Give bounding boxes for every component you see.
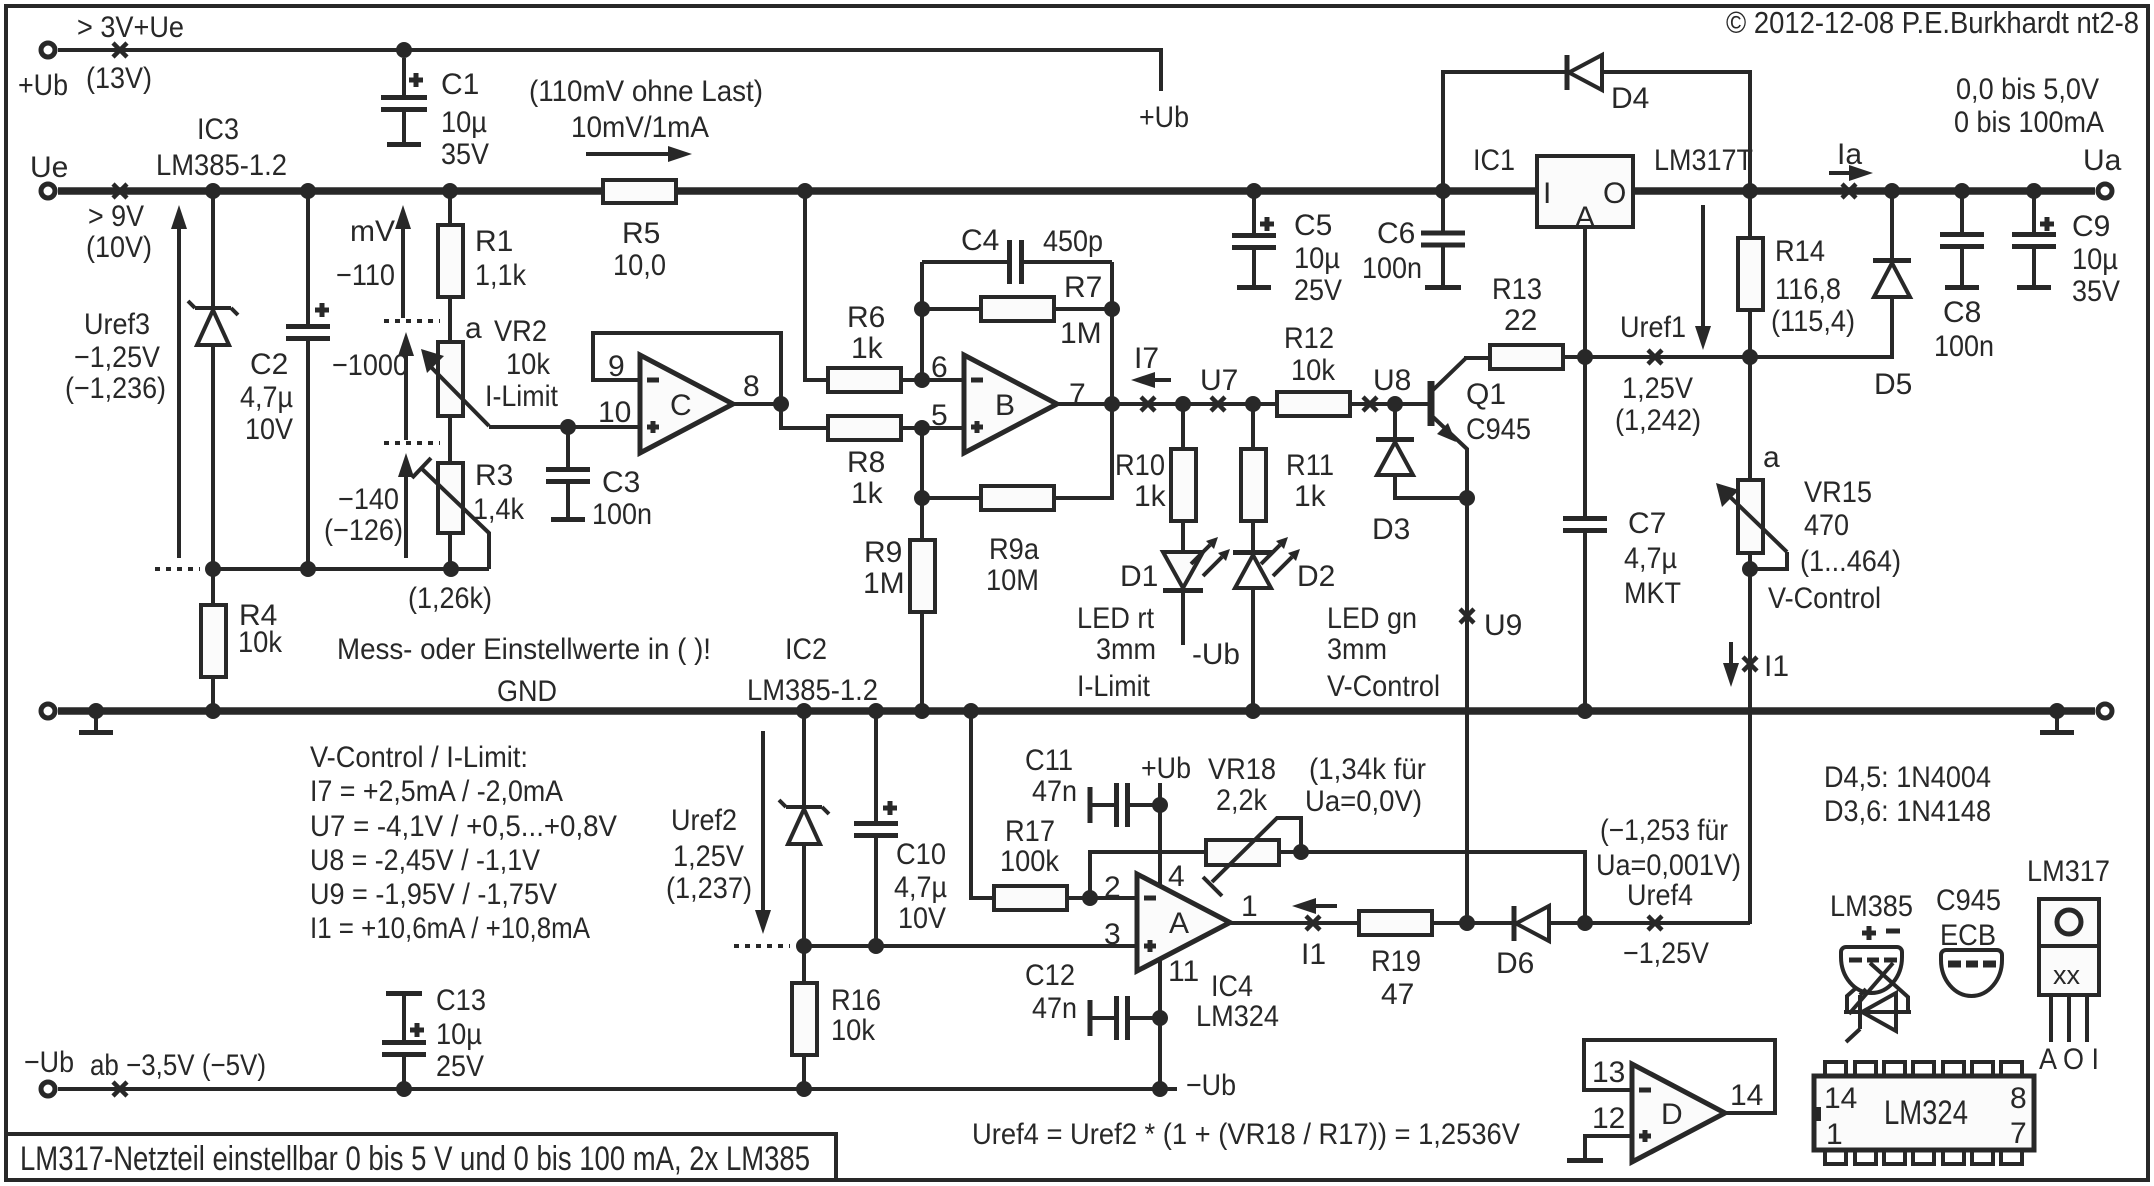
- svg-text:I1: I1: [1764, 650, 1789, 683]
- svg-text:+Ub: +Ub: [1139, 101, 1189, 134]
- svg-text:(1...464): (1...464): [1800, 545, 1901, 578]
- arrow current direction R5: [586, 146, 692, 162]
- LED D1: [1163, 537, 1230, 645]
- svg-text:LM317-Netzteil einstellbar 0 b: LM317-Netzteil einstellbar 0 bis 5 V und…: [20, 1140, 810, 1178]
- node x marker I7: [1141, 397, 1155, 411]
- svg-text:R11: R11: [1286, 449, 1334, 482]
- svg-text:Uref1: Uref1: [1620, 311, 1686, 344]
- svg-text:(10V): (10V): [86, 231, 152, 264]
- svg-text:R3: R3: [475, 459, 513, 492]
- resistor R11: [1241, 404, 1266, 552]
- svg-text:1k: 1k: [851, 332, 884, 365]
- svg-text:D3,6: 1N4148: D3,6: 1N4148: [1824, 795, 1991, 828]
- svg-text:A O I: A O I: [2039, 1043, 2099, 1076]
- junction op-amp C output: [773, 396, 789, 412]
- svg-text:47n: 47n: [1032, 775, 1077, 808]
- svg-text:D6: D6: [1496, 947, 1534, 980]
- op-amp A: [1137, 874, 1230, 971]
- svg-text:U7 = -4,1V / +0,5...+0,8V: U7 = -4,1V / +0,5...+0,8V: [310, 810, 617, 843]
- wire +Ub top rail: [58, 50, 1161, 91]
- svg-text:1k: 1k: [1294, 480, 1327, 513]
- svg-text:R5: R5: [622, 217, 660, 250]
- resistor R4: [201, 569, 226, 711]
- svg-text:4: 4: [1168, 860, 1185, 893]
- svg-text:IC1: IC1: [1473, 144, 1515, 177]
- junction D6 right / feedback: [1577, 915, 1593, 931]
- capacitor C9: [2012, 191, 2056, 288]
- svg-text:C945: C945: [1466, 413, 1531, 446]
- resistor R17: [994, 886, 1067, 910]
- diode D5: [1873, 191, 1911, 297]
- capacitor C8: [1940, 191, 1984, 288]
- svg-text:11: 11: [1168, 955, 1199, 988]
- wire bus to R6: [805, 191, 828, 380]
- svg-text:Uref3: Uref3: [84, 308, 150, 341]
- svg-text:4,7µ: 4,7µ: [894, 871, 947, 904]
- svg-text:V-Control: V-Control: [1327, 670, 1440, 703]
- arrow -140 scale: [398, 453, 414, 558]
- svg-text:22: 22: [1504, 304, 1537, 337]
- wire pin11 to -Ub: [1158, 959, 1162, 1089]
- svg-text:14: 14: [1730, 1079, 1763, 1112]
- icon C945 package: [1936, 884, 2002, 996]
- svg-text:10k: 10k: [1291, 354, 1336, 387]
- node x marker Ia: [1842, 184, 1856, 198]
- resistor R9: [910, 540, 935, 711]
- svg-text:4,7µ: 4,7µ: [240, 381, 293, 414]
- svg-text:10M: 10M: [986, 564, 1039, 597]
- capacitor C10: [854, 711, 898, 946]
- capacitor C12: [1090, 996, 1160, 1040]
- op-amp D: [1632, 1064, 1725, 1162]
- svg-text:Uref4: Uref4: [1627, 879, 1693, 912]
- svg-text:-Ub: -Ub: [1192, 638, 1240, 671]
- svg-text:V-Control / I-Limit:: V-Control / I-Limit:: [310, 741, 528, 774]
- svg-text:+Ub: +Ub: [1141, 752, 1191, 785]
- bus junction dots: [205, 183, 221, 199]
- capacitor C13: [382, 994, 426, 1090]
- svg-text:I7 = +2,5mA / -2,0mA: I7 = +2,5mA / -2,0mA: [310, 775, 563, 808]
- svg-text:14: 14: [1824, 1082, 1857, 1115]
- svg-text:1k: 1k: [851, 477, 884, 510]
- zener diode IC3: [188, 191, 238, 569]
- node x marker U9: [1460, 609, 1474, 623]
- svg-text:C9: C9: [2072, 210, 2110, 243]
- svg-text:−110: −110: [336, 259, 395, 292]
- svg-text:LM385: LM385: [1830, 890, 1913, 923]
- capacitor C5: [1232, 191, 1276, 288]
- svg-text:1M: 1M: [1060, 317, 1102, 350]
- svg-text:0,0 bis 5,0V: 0,0 bis 5,0V: [1956, 73, 2099, 106]
- svg-text:−1000: −1000: [332, 349, 408, 382]
- svg-text:10,0: 10,0: [613, 249, 666, 282]
- svg-text:(1,242): (1,242): [1615, 404, 1701, 437]
- svg-text:3mm: 3mm: [1096, 633, 1156, 666]
- transistor Q1: [1395, 358, 1467, 498]
- svg-text:A: A: [1169, 907, 1189, 940]
- svg-text:3mm: 3mm: [1327, 633, 1387, 666]
- resistor R7: [922, 297, 1112, 321]
- node x marker U7: [1211, 397, 1225, 411]
- wire op-amp C feedback loop: [593, 333, 828, 428]
- svg-text:IC4: IC4: [1211, 970, 1253, 1003]
- resistor R6: [828, 368, 901, 392]
- junction VR15 bottom: [1742, 561, 1758, 577]
- terminal Ua: [2098, 184, 2112, 198]
- label V-Control / I-Limit block: [310, 741, 617, 945]
- diode D4: [1443, 55, 1750, 191]
- svg-text:7: 7: [1069, 378, 1086, 411]
- svg-text:13: 13: [1592, 1056, 1625, 1089]
- svg-text:−Ub: −Ub: [1186, 1069, 1236, 1102]
- terminal GND right: [2098, 704, 2112, 718]
- trimmer VR18: [1203, 818, 1301, 896]
- svg-text:10µ: 10µ: [1294, 242, 1340, 275]
- svg-text:R14: R14: [1775, 235, 1825, 268]
- wire Uref1 row: [1585, 297, 1892, 357]
- svg-text:10k: 10k: [238, 626, 283, 659]
- wire R19 to D6: [1432, 921, 1514, 925]
- terminal GND left: [41, 704, 55, 718]
- svg-text:116,8: 116,8: [1775, 273, 1841, 306]
- arrow mV scale: [395, 205, 411, 318]
- resistor R13: [1464, 345, 1585, 369]
- svg-text:R8: R8: [847, 446, 885, 479]
- LED D2: [1233, 537, 1300, 711]
- diode D3: [1376, 404, 1467, 498]
- svg-text:C1: C1: [441, 68, 479, 101]
- wire main bus: [58, 187, 2095, 195]
- arrow Uref2: [755, 731, 771, 934]
- svg-text:LM385-1.2: LM385-1.2: [747, 674, 878, 707]
- svg-text:6: 6: [931, 351, 948, 384]
- svg-text:100k: 100k: [1000, 845, 1060, 878]
- svg-text:10µ: 10µ: [436, 1018, 482, 1051]
- svg-text:I-Limit: I-Limit: [485, 380, 559, 413]
- svg-text:I7: I7: [1134, 342, 1159, 375]
- diode D6: [1514, 906, 1750, 941]
- zener diode IC2: [779, 711, 829, 946]
- svg-text:1,1k: 1,1k: [475, 259, 527, 292]
- svg-text:470: 470: [1804, 509, 1849, 542]
- svg-text:(110mV ohne Last): (110mV ohne Last): [529, 75, 763, 108]
- svg-text:R16: R16: [831, 984, 881, 1017]
- svg-text:(−1,236): (−1,236): [65, 372, 166, 405]
- svg-text:Ua: Ua: [2083, 144, 2122, 177]
- wire C4 right drop: [1110, 262, 1114, 404]
- ground symbol right: [2055, 715, 2059, 730]
- svg-text:100n: 100n: [592, 498, 652, 531]
- wire VR18 row to feedback drop: [1279, 852, 1585, 924]
- svg-text:1: 1: [1241, 890, 1258, 923]
- svg-text:LM385-1.2: LM385-1.2: [156, 149, 287, 182]
- potentiometer VR2: [421, 342, 489, 463]
- svg-text:C11: C11: [1025, 744, 1073, 777]
- svg-text:V-Control: V-Control: [1768, 582, 1881, 615]
- arrow Uref3: [171, 205, 187, 558]
- svg-text:LM324: LM324: [1196, 1000, 1279, 1033]
- svg-text:R12: R12: [1284, 322, 1334, 355]
- node x marker I1 top: [1743, 657, 1757, 671]
- icon LM324 DIP package: [1812, 1062, 2034, 1164]
- wire pin2 to VR18: [1090, 852, 1206, 898]
- svg-text:(1,26k): (1,26k): [408, 582, 492, 615]
- wire -Ub rail: [58, 1087, 1177, 1091]
- potentiometer VR15: [1716, 357, 1787, 569]
- svg-text:D4,5: 1N4004: D4,5: 1N4004: [1824, 761, 1991, 794]
- svg-text:LED rt: LED rt: [1077, 602, 1155, 635]
- svg-text:VR2: VR2: [494, 315, 547, 348]
- wire pin12 ground stub: [1585, 1136, 1632, 1158]
- svg-text:10: 10: [598, 396, 631, 429]
- capacitor C7: [1563, 519, 1607, 712]
- svg-text:1,25V: 1,25V: [1622, 372, 1693, 405]
- svg-text:100n: 100n: [1934, 330, 1994, 363]
- svg-text:R10: R10: [1115, 449, 1165, 482]
- title box: [6, 1134, 836, 1180]
- svg-text:D: D: [1661, 1098, 1683, 1131]
- svg-text:ECB: ECB: [1940, 919, 1996, 952]
- svg-text:IC3: IC3: [197, 113, 239, 146]
- svg-text:R19: R19: [1371, 945, 1421, 978]
- svg-text:C3: C3: [602, 466, 640, 499]
- resistor R12: [1277, 392, 1350, 416]
- wire R17 to pin2: [1067, 896, 1137, 900]
- junction R10 top: [1175, 396, 1191, 412]
- svg-text:1: 1: [1826, 1118, 1843, 1151]
- svg-text:C13: C13: [436, 984, 486, 1017]
- svg-text:GND: GND: [497, 675, 557, 708]
- svg-text:© 2012-12-08 P.E.Burkhardt nt2: © 2012-12-08 P.E.Burkhardt nt2-8: [1726, 5, 2139, 40]
- svg-text:−140: −140: [338, 483, 399, 516]
- capacitor C11: [1090, 783, 1160, 827]
- svg-text:U9: U9: [1484, 609, 1522, 642]
- terminal -Ub: [41, 1082, 55, 1096]
- junction U8 node: [1387, 396, 1403, 412]
- svg-text:C2: C2: [250, 348, 288, 381]
- capacitor C3: [546, 427, 590, 520]
- node x marker Uref4: [1648, 916, 1662, 930]
- svg-text:−Ub: −Ub: [24, 1046, 74, 1079]
- svg-text:C945: C945: [1936, 884, 2001, 917]
- wire Q1 emitter down U9: [1465, 498, 1469, 924]
- wire pin5 to R9a: [920, 428, 924, 540]
- svg-text:C8: C8: [1943, 296, 1981, 329]
- junction C1 top: [396, 42, 412, 58]
- svg-text:10mV/1mA: 10mV/1mA: [571, 111, 709, 144]
- arrow Uref1: [1695, 205, 1711, 350]
- wire Uref2 row to pin3: [804, 944, 1137, 948]
- resistor R14: [1738, 191, 1763, 357]
- svg-text:100n: 100n: [1362, 252, 1422, 285]
- svg-text:10k: 10k: [831, 1014, 876, 1047]
- svg-text:3: 3: [1104, 918, 1121, 951]
- svg-text:R6: R6: [847, 301, 885, 334]
- wire GND bus: [58, 707, 2095, 715]
- svg-text:35V: 35V: [441, 138, 489, 171]
- wire R8 to pin5: [901, 426, 964, 430]
- wire op-amp B output: [1057, 402, 1277, 406]
- svg-text:D2: D2: [1297, 560, 1335, 593]
- svg-text:2,2k: 2,2k: [1216, 784, 1268, 817]
- svg-text:R9a: R9a: [989, 533, 1039, 566]
- svg-text:ab −3,5V (−5V): ab −3,5V (−5V): [90, 1049, 266, 1082]
- resistor R16: [792, 946, 817, 1089]
- svg-text:Q1: Q1: [1466, 378, 1506, 411]
- svg-text:(−1,253 für: (−1,253 für: [1600, 814, 1728, 847]
- svg-text:R7: R7: [1064, 271, 1102, 304]
- capacitor C2: [286, 191, 330, 569]
- arrow -1000 scale: [398, 332, 414, 440]
- svg-text:C4: C4: [961, 224, 999, 257]
- ground symbol left: [94, 715, 98, 730]
- svg-text:1,4k: 1,4k: [473, 493, 525, 526]
- svg-text:Ua=0,001V): Ua=0,001V): [1596, 849, 1741, 882]
- svg-text:I1 = +10,6mA / +10,8mA: I1 = +10,6mA / +10,8mA: [310, 912, 590, 945]
- op-amp B: [964, 355, 1057, 453]
- svg-text:−1,25V: −1,25V: [1623, 937, 1709, 970]
- resistor R10: [1171, 404, 1196, 552]
- capacitor C1: [381, 58, 427, 145]
- svg-text:U9 = -1,95V / -1,75V: U9 = -1,95V / -1,75V: [310, 878, 557, 911]
- resistor R8: [828, 416, 901, 440]
- svg-text:4,7µ: 4,7µ: [1624, 542, 1677, 575]
- icon LM317 package: [2027, 855, 2110, 1076]
- svg-text:8: 8: [2010, 1082, 2027, 1115]
- svg-text:Ue: Ue: [30, 151, 68, 184]
- svg-text:xx: xx: [2053, 960, 2081, 990]
- svg-text:I: I: [1543, 177, 1551, 210]
- svg-text:C6: C6: [1377, 217, 1415, 250]
- svg-text:LM317T: LM317T: [1654, 144, 1753, 177]
- svg-text:VR18: VR18: [1208, 753, 1276, 786]
- capacitor C6: [1421, 191, 1465, 288]
- node x marker U8: [1363, 397, 1377, 411]
- arrow I1 top: [1723, 642, 1739, 687]
- junction R11 top: [1245, 396, 1261, 412]
- svg-text:(13V): (13V): [86, 62, 152, 95]
- svg-text:10V: 10V: [245, 413, 293, 446]
- svg-text:a: a: [465, 312, 482, 345]
- svg-text:MKT: MKT: [1624, 577, 1681, 610]
- svg-text:LED gn: LED gn: [1327, 602, 1417, 635]
- resistor R19: [1359, 911, 1432, 935]
- svg-text:2: 2: [1104, 871, 1121, 904]
- svg-text:7: 7: [2010, 1117, 2027, 1150]
- svg-text:10k: 10k: [506, 348, 551, 381]
- regulator IC1: [1537, 156, 1633, 234]
- wire VR15 to I1 row: [1748, 569, 1752, 924]
- svg-text:(115,4): (115,4): [1771, 305, 1855, 338]
- svg-text:R17: R17: [1005, 815, 1055, 848]
- ground symbol pin12: [1567, 1158, 1603, 1163]
- svg-text:C: C: [670, 389, 692, 422]
- svg-text:R1: R1: [475, 225, 513, 258]
- wire VR2 wiper to node: [489, 425, 640, 429]
- svg-text:47n: 47n: [1032, 992, 1077, 1025]
- svg-text:10V: 10V: [898, 902, 946, 935]
- svg-text:35V: 35V: [2072, 275, 2120, 308]
- node x marker Uref1: [1648, 350, 1662, 364]
- svg-text:> 9V: > 9V: [88, 200, 144, 233]
- svg-text:−1,25V: −1,25V: [74, 341, 160, 374]
- dotted wiper mark upper: [384, 319, 440, 323]
- svg-text:450p: 450p: [1043, 225, 1103, 258]
- wire GND to R17: [971, 711, 994, 898]
- svg-text:8: 8: [743, 370, 760, 403]
- GND junction dots: [88, 703, 104, 719]
- svg-text:D4: D4: [1611, 82, 1649, 115]
- svg-text:> 3V+Ue: > 3V+Ue: [77, 11, 184, 44]
- svg-text:Mess- oder Einstellwerte in (: Mess- oder Einstellwerte in ( )!: [337, 633, 711, 666]
- svg-text:C10: C10: [896, 838, 946, 871]
- svg-text:D1: D1: [1120, 560, 1158, 593]
- arrow I7: [1131, 372, 1171, 388]
- svg-text:Uref2: Uref2: [671, 804, 737, 837]
- resistor R1: [438, 191, 463, 342]
- arrow I1 out: [1292, 898, 1337, 914]
- svg-text:(−126): (−126): [324, 514, 403, 547]
- op-amp C: [640, 355, 733, 453]
- svg-text:Ua=0,0V): Ua=0,0V): [1305, 785, 1422, 818]
- svg-text:U8: U8: [1373, 364, 1411, 397]
- capacitor C4: [922, 240, 1112, 284]
- svg-text:LM324: LM324: [1884, 1094, 1968, 1132]
- svg-text:10µ: 10µ: [2072, 243, 2118, 276]
- svg-text:a: a: [1763, 441, 1780, 474]
- wire op-amp D feedback box: [1584, 1040, 1775, 1113]
- svg-text:LM317: LM317: [2027, 855, 2110, 888]
- svg-text:R13: R13: [1492, 273, 1542, 306]
- svg-text:B: B: [995, 389, 1015, 422]
- svg-text:1,25V: 1,25V: [673, 840, 744, 873]
- wire +Ub pin4: [1158, 783, 1162, 886]
- resistor R9a: [922, 404, 1112, 510]
- svg-text:I-Limit: I-Limit: [1077, 670, 1151, 703]
- -Ub junction dots: [396, 1081, 412, 1097]
- svg-text:25V: 25V: [436, 1050, 484, 1083]
- junction R14 bottom: [1742, 349, 1758, 365]
- node x marker >9V: [113, 184, 127, 198]
- node x marker 13V: [113, 43, 127, 57]
- svg-text:1k: 1k: [1134, 480, 1167, 513]
- resistor R5: [603, 180, 676, 203]
- arrow Ia: [1829, 165, 1873, 181]
- svg-text:D5: D5: [1874, 368, 1912, 401]
- svg-text:C12: C12: [1025, 959, 1075, 992]
- wire R6 to pin6: [901, 378, 964, 382]
- svg-text:VR15: VR15: [1804, 476, 1872, 509]
- wire C4 left drop: [920, 262, 924, 380]
- junction Q1 emitter / D3: [1459, 490, 1475, 506]
- terminal Ue: [41, 184, 55, 198]
- svg-text:10µ: 10µ: [441, 106, 487, 139]
- svg-text:mV: mV: [350, 215, 395, 248]
- node x marker I1 out: [1306, 916, 1320, 930]
- wire R12 to U8: [1350, 402, 1429, 406]
- dotted wiper mark lower: [384, 441, 440, 445]
- svg-text:R9: R9: [864, 536, 902, 569]
- icon LM385 package: [1830, 890, 1913, 1042]
- svg-text:C5: C5: [1294, 209, 1332, 242]
- svg-text:1M: 1M: [863, 567, 905, 600]
- node x marker ab -3,5V: [113, 1082, 127, 1096]
- svg-text:47: 47: [1381, 978, 1414, 1011]
- svg-text:(1,237): (1,237): [666, 872, 752, 905]
- svg-text:Uref4 = Uref2 * (1 + (VR18 / R: Uref4 = Uref2 * (1 + (VR18 / R17)) = 1,2…: [972, 1118, 1520, 1151]
- wire op-amp A output row: [1230, 921, 1359, 925]
- wire IC1 A pin: [1583, 227, 1587, 516]
